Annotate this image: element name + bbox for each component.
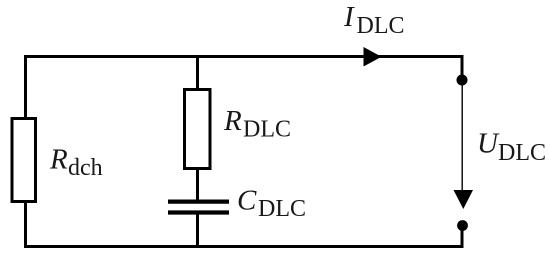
svg-text:DLC: DLC [357, 13, 405, 39]
svg-text:DLC: DLC [243, 117, 291, 143]
svg-text:DLC: DLC [498, 140, 546, 166]
svg-text:R: R [223, 105, 242, 137]
svg-text:U: U [477, 128, 500, 160]
svg-text:R: R [49, 144, 68, 176]
svg-text:DLC: DLC [258, 196, 306, 222]
svg-text:dch: dch [68, 155, 103, 181]
svg-text:C: C [237, 185, 257, 217]
svg-text:I: I [343, 1, 355, 33]
